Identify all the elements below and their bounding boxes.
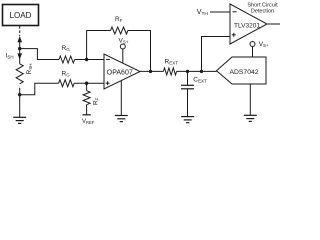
svg-text:RSH: RSH — [26, 64, 33, 75]
svg-text:VS+: VS+ — [119, 37, 129, 44]
svg-text:LOAD: LOAD — [10, 11, 32, 20]
svg-text:TLV3201: TLV3201 — [234, 22, 260, 29]
svg-text:RG: RG — [62, 45, 71, 52]
svg-text:VS+: VS+ — [259, 41, 269, 48]
svg-text:REXT: REXT — [165, 59, 179, 66]
svg-text:OPA607: OPA607 — [107, 69, 133, 76]
svg-text:ADS7042: ADS7042 — [229, 69, 258, 76]
svg-text:RF: RF — [92, 97, 99, 105]
svg-text:CEXT: CEXT — [193, 76, 207, 83]
svg-text:ISH: ISH — [6, 53, 14, 60]
svg-text:Detection: Detection — [251, 8, 274, 14]
svg-text:VREF: VREF — [82, 119, 95, 125]
svg-text:RF: RF — [115, 16, 123, 23]
svg-text:RG: RG — [62, 70, 71, 77]
svg-text:VTH: VTH — [197, 9, 209, 17]
